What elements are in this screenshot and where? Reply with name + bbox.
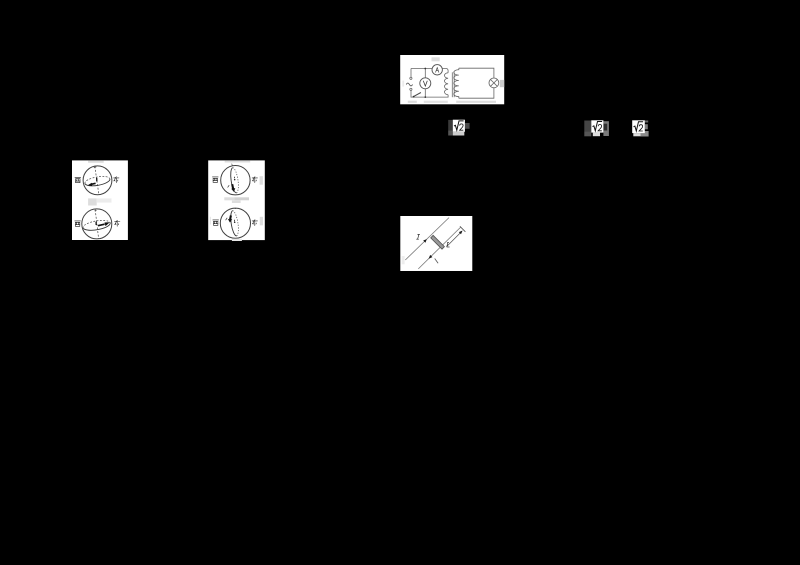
dimension line upper with arrowhead (447, 233, 460, 246)
sphere 2 dashed axis (95, 209, 98, 238)
lamp (489, 78, 499, 88)
sphere 1 needle pointing west (91, 183, 95, 184)
sphere 1 solid front arc (85, 178, 110, 185)
wire: secondary loop (459, 68, 494, 98)
label I (416, 234, 420, 239)
sphere 2 east label (252, 219, 257, 225)
formula chip 1: sqrt(2) (447, 118, 471, 137)
AC source terminal upper (410, 77, 412, 79)
voltmeter V (420, 78, 431, 89)
sphere 1 east label (114, 176, 119, 182)
gray smudges sphere 2 sides (209, 216, 210, 224)
sphere 1 pivot (96, 177, 98, 180)
figure: compass panel left (horizontal needles) (71, 160, 130, 242)
sphere 1 circle (83, 165, 112, 194)
label L (447, 242, 450, 247)
sphere 2 solid front arc (83, 222, 110, 230)
figure: transformer circuit image (399, 55, 505, 105)
formula chip 3: sqrt(2) (631, 119, 650, 138)
wire upper with current I (405, 218, 449, 260)
sphere 2 needle pointing east (98, 224, 105, 226)
formula chip 2: sqrt(2) (583, 119, 610, 138)
sphere 1 solid left arc of vertical ellipse (230, 167, 236, 192)
AC source tilde symbol (406, 83, 412, 86)
switch pivot dot (413, 96, 415, 98)
rod (shaded bar) (431, 235, 445, 249)
gray smudge top (432, 57, 440, 61)
primary coil of transformer (445, 73, 449, 95)
figure: compass panel right (vertical needles) (208, 160, 266, 241)
gray smudge left (402, 256, 405, 264)
current arrowhead (423, 239, 427, 243)
secondary coil of transformer (454, 68, 459, 98)
dimension tick upper (460, 226, 465, 231)
sphere 2 tick (225, 217, 227, 219)
sphere 1 west label (212, 176, 218, 181)
sphere 2 pivot (95, 221, 97, 224)
sphere 1 circle (220, 165, 249, 194)
dimension tick lower (435, 258, 438, 263)
sphere 1 needle pointing down (232, 184, 233, 189)
white background of circuit figure (400, 55, 504, 104)
sphere 1 west label (75, 177, 81, 182)
sphere 2 circle (82, 208, 112, 238)
sphere 1 pivot (233, 178, 235, 180)
dimension arrowhead lower (429, 255, 433, 259)
sphere 2 needle pointing down (upper left) (229, 215, 232, 219)
gray smudge above (224, 160, 250, 162)
gray smudge above top sphere (88, 160, 104, 162)
gray smudge right of lamp (500, 80, 504, 87)
gray smudge between spheres (224, 197, 234, 200)
sphere 1 east label (252, 176, 257, 182)
wire: primary bottom (411, 91, 448, 98)
sphere 2 circle (220, 208, 250, 238)
ammeter A (432, 65, 442, 75)
sphere 2 solid left arc (230, 210, 236, 235)
gray smudge right of sphere 1 (259, 176, 262, 185)
glyph defs for Chinese labels (0, 0, 1, 1)
sphere 1 dashed back arc (85, 176, 110, 183)
wire lower (418, 227, 460, 269)
gray smudge between spheres (88, 198, 97, 205)
sphere 2 west label (212, 219, 218, 224)
sphere 2 top tick (233, 207, 236, 210)
transformer core (451, 72, 453, 97)
junction dot top (424, 68, 426, 70)
sphere 1 tick (227, 185, 229, 187)
sphere 2 west label (75, 220, 81, 225)
figure: current rod with length L (400, 216, 473, 271)
wire: left branch top (410, 69, 412, 78)
gray smudge bottom strips (408, 101, 417, 103)
gray smudge left edge (402, 81, 404, 87)
wire: V branch vertical (424, 69, 426, 98)
switch blade (413, 93, 421, 97)
sphere 2 dotted right arc (232, 210, 238, 235)
sphere 2 dashed back arc (83, 220, 110, 228)
sphere 1 top tick (230, 163, 233, 165)
sphere 1 dashed axis (95, 166, 99, 194)
AC source terminal lower (410, 88, 412, 90)
sphere 2 pivot (233, 221, 235, 223)
wire: primary top (411, 69, 448, 73)
junction dot bottom (424, 96, 426, 98)
sphere 1 dotted right arc (232, 167, 238, 192)
sphere 2 east label (115, 220, 120, 226)
